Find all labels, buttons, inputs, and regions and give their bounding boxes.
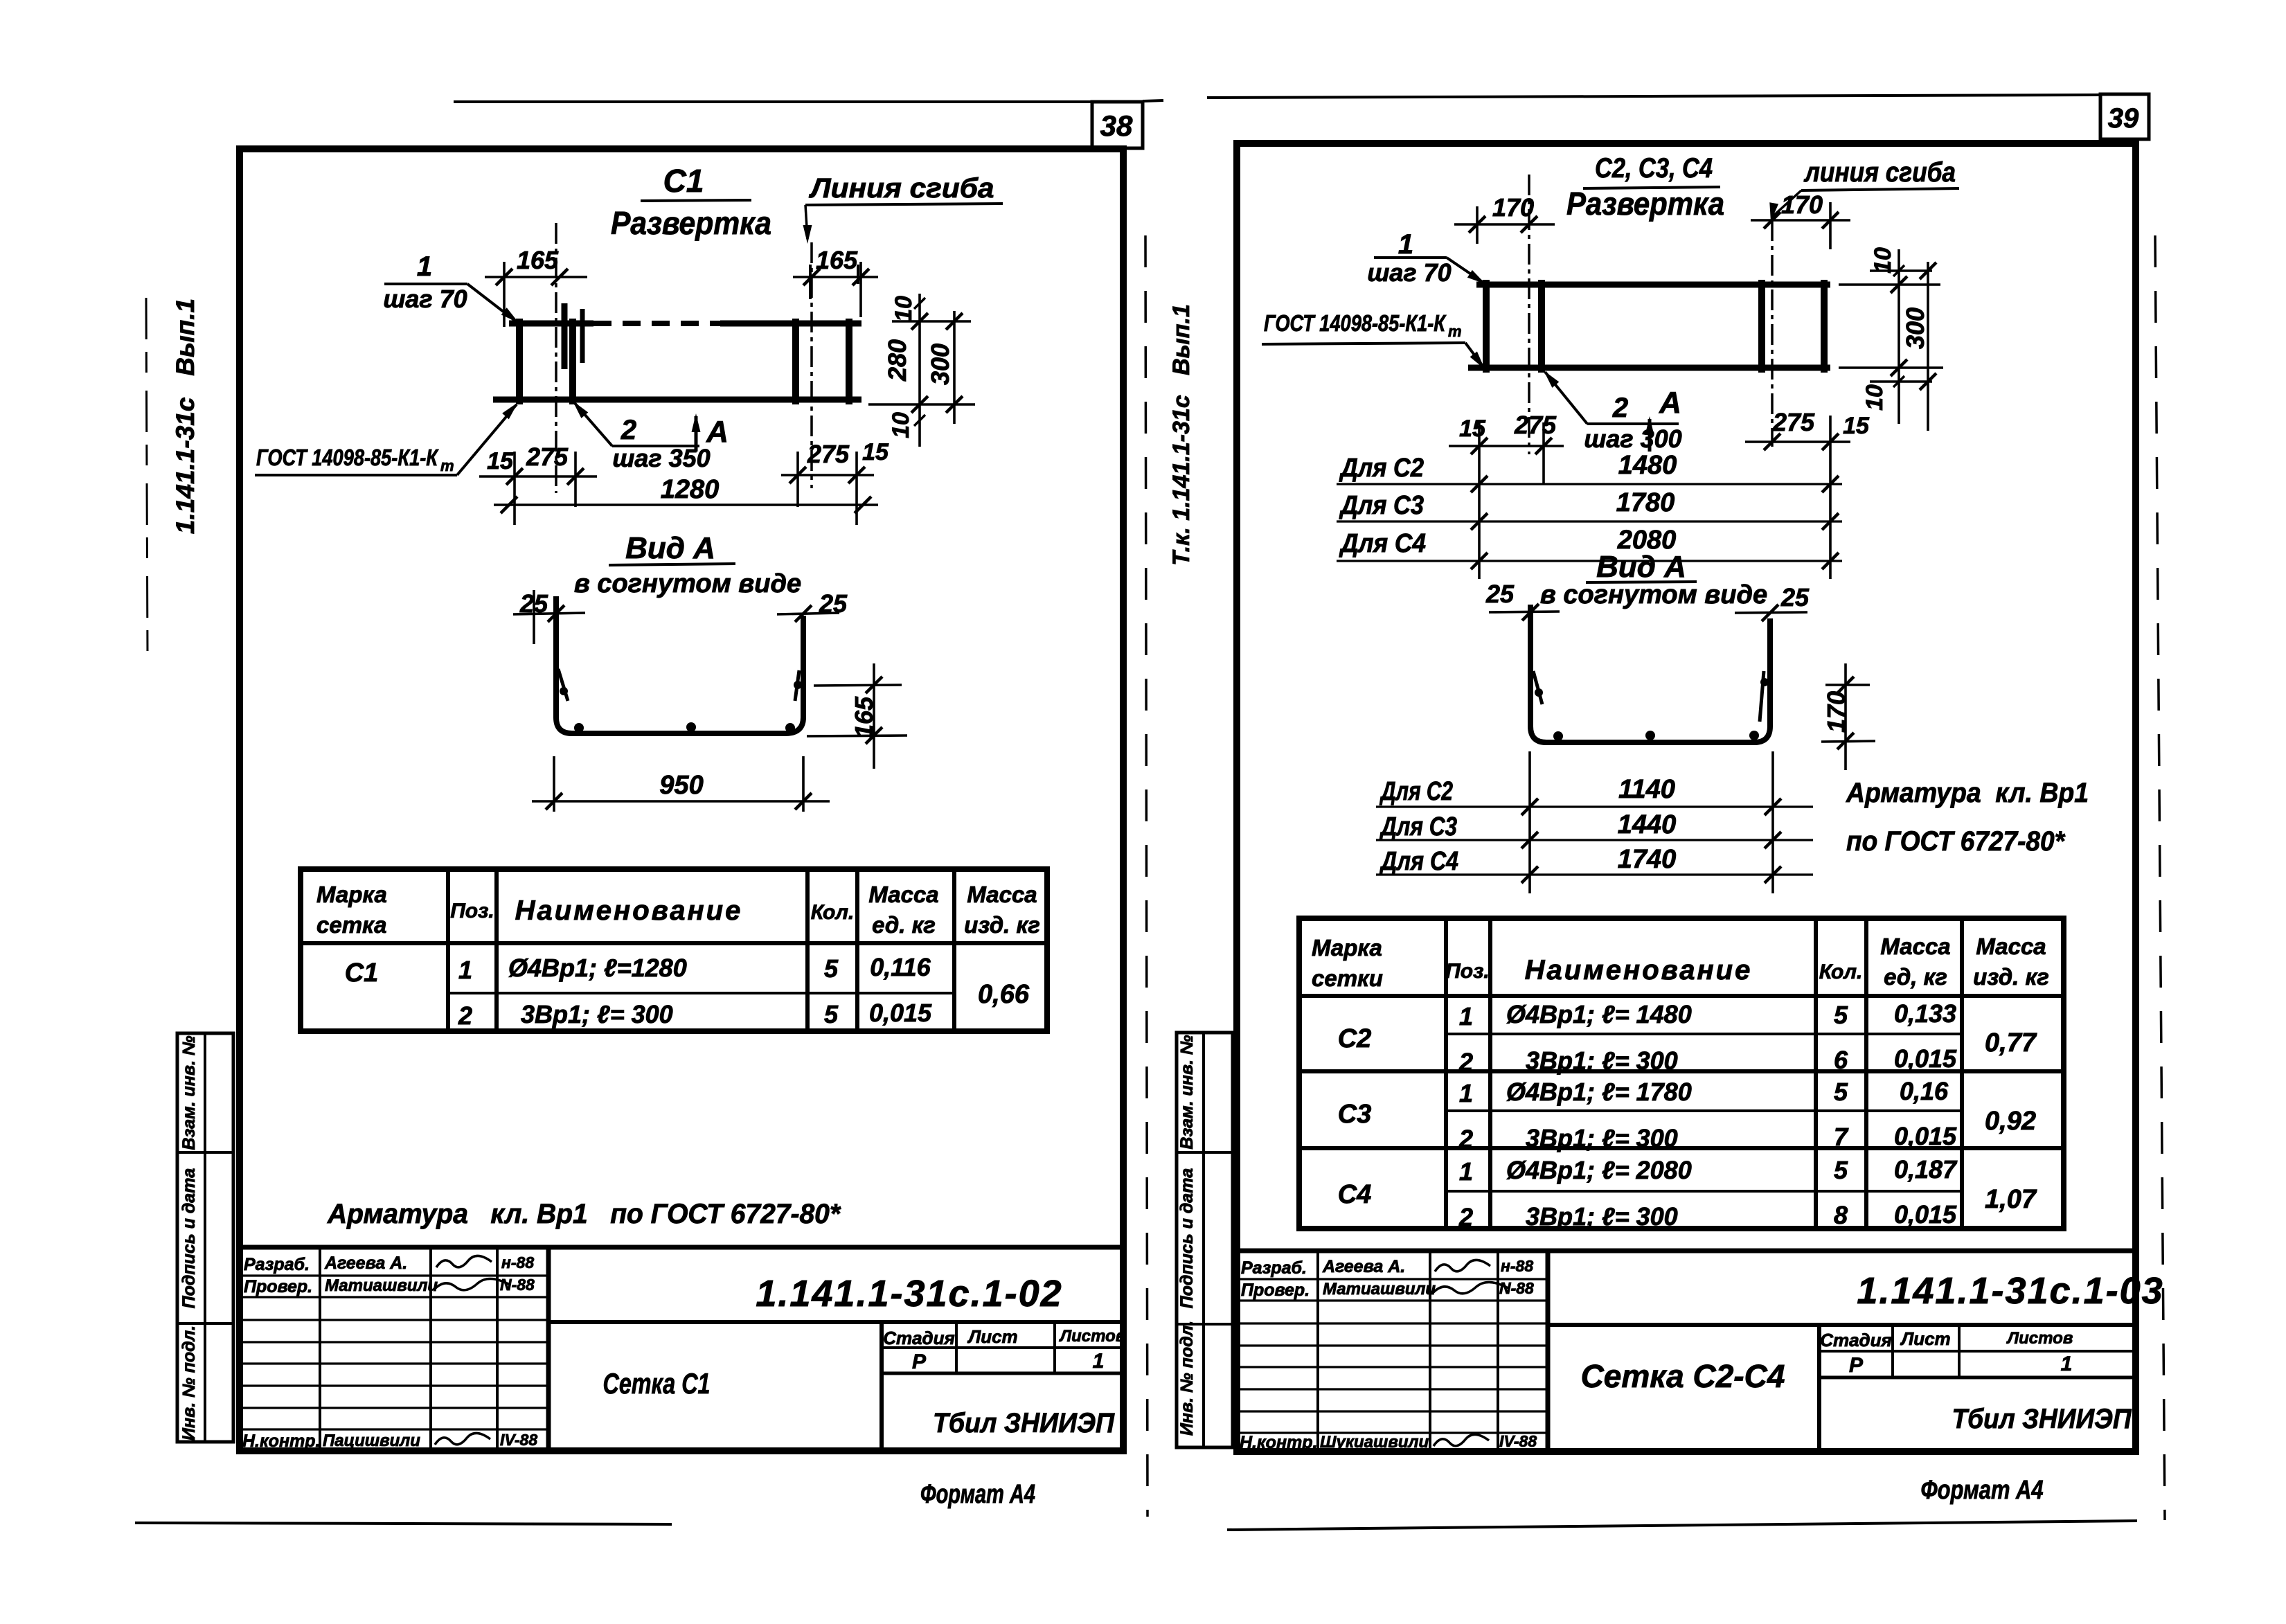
svg-text:Шукиашвили: Шукиашвили (1320, 1433, 1429, 1452)
title block sheet2 (1237, 1249, 2136, 1253)
svg-text:изд. кг: изд. кг (1973, 964, 2049, 990)
dim 165 bent height (814, 685, 902, 686)
svg-text:2: 2 (1612, 393, 1628, 423)
svg-text:Агеева А.: Агеева А. (1322, 1257, 1405, 1276)
dim 165 right (859, 262, 862, 317)
svg-text:Р: Р (1849, 1354, 1864, 1377)
svg-text:Наименование: Наименование (1525, 955, 1753, 985)
svg-text:1,07: 1,07 (1985, 1185, 2037, 1214)
svg-text:Листов: Листов (2006, 1329, 2073, 1348)
svg-text:2: 2 (1458, 1125, 1473, 1153)
specification table sheet1 (301, 869, 1047, 1031)
svg-text:Формат А4: Формат А4 (1921, 1476, 2044, 1505)
svg-text:10: 10 (1870, 247, 1896, 274)
wire hook left sheet2 (1533, 671, 1542, 704)
svg-text:Вид А: Вид А (1596, 550, 1686, 584)
svg-text:15: 15 (1843, 413, 1870, 439)
section arrow A sheet2 (1648, 419, 1652, 452)
svg-text:Стадия: Стадия (1820, 1330, 1892, 1350)
svg-text:шаг 300: шаг 300 (1584, 425, 1681, 453)
svg-text:сетка: сетка (316, 912, 387, 938)
svg-text:0,187: 0,187 (1894, 1155, 1958, 1184)
svg-text:т: т (1448, 323, 1462, 340)
svg-text:Листов: Листов (1059, 1327, 1126, 1346)
svg-text:2: 2 (1458, 1048, 1473, 1076)
svg-text:Наименование: Наименование (515, 895, 743, 926)
svg-text:3Вр1; ℓ= 300: 3Вр1; ℓ= 300 (1526, 1046, 1678, 1075)
mesh C1 top longitudinal wire (509, 321, 593, 327)
svg-text:Поз.: Поз. (1445, 960, 1490, 983)
svg-text:С3: С3 (1338, 1100, 1372, 1129)
mesh C1 right transverse rod 2 (846, 319, 852, 404)
svg-text:1.141.1-31с Вып.1: 1.141.1-31с Вып.1 (171, 298, 199, 534)
mesh C1 top wire right part (720, 321, 861, 327)
page number box 39 (2100, 94, 2149, 139)
svg-text:С1: С1 (345, 958, 379, 988)
svg-text:н-88: н-88 (501, 1253, 534, 1271)
dim 15 275 left sheet2 (1478, 422, 1481, 579)
svg-text:Для С4: Для С4 (1379, 847, 1458, 876)
transverse wire dots sheet2 (1553, 731, 1563, 741)
svg-text:3Вр1; ℓ= 300: 3Вр1; ℓ= 300 (1526, 1202, 1678, 1231)
dim 170 bent height sheet2 (1825, 684, 1870, 686)
svg-text:25: 25 (1485, 580, 1515, 608)
mesh right transverse rod 1 (1758, 280, 1765, 373)
svg-text:Тбил ЗНИИЭП: Тбил ЗНИИЭП (1952, 1404, 2132, 1434)
svg-text:275: 275 (1772, 408, 1815, 436)
svg-text:8: 8 (1834, 1201, 1848, 1229)
svg-text:3Вр1; ℓ= 300: 3Вр1; ℓ= 300 (1526, 1124, 1678, 1152)
svg-text:15: 15 (487, 448, 514, 474)
svg-text:Подпись и дата: Подпись и дата (1177, 1168, 1197, 1309)
svg-text:Линия сгиба: Линия сгиба (808, 173, 994, 204)
scan left margin dashed line (146, 298, 148, 654)
svg-text:Ø4Вр1; ℓ= 1480: Ø4Вр1; ℓ= 1480 (1506, 1000, 1692, 1028)
svg-text:1: 1 (417, 251, 432, 282)
svg-text:в согнутом виде: в согнутом виде (1540, 580, 1767, 609)
svg-text:1: 1 (1459, 1157, 1473, 1186)
mesh C1 second transverse rod (569, 319, 576, 404)
stamp sheet1 (882, 1346, 1123, 1349)
svg-text:1: 1 (1093, 1350, 1105, 1373)
extra tick marks near left rods (shag 70) (562, 303, 568, 369)
svg-text:1740: 1740 (1618, 845, 1677, 874)
svg-text:сетки: сетки (1312, 965, 1383, 991)
mesh C1 top wire dashed middle (593, 321, 720, 326)
svg-text:275: 275 (807, 440, 850, 468)
svg-text:Н.контр.: Н.контр. (1240, 1433, 1318, 1452)
scan bottom edge line (right) (1227, 1521, 2137, 1530)
svg-text:170: 170 (1492, 193, 1534, 222)
svg-text:6: 6 (1834, 1046, 1848, 1074)
svg-text:1280: 1280 (661, 475, 720, 504)
svg-text:IV-88: IV-88 (1499, 1432, 1537, 1450)
svg-text:5: 5 (824, 1000, 839, 1028)
section arrow A (695, 416, 698, 452)
svg-text:Лист: Лист (1900, 1328, 1950, 1349)
svg-text:25: 25 (1780, 583, 1810, 612)
dim 170 right sheet2 (1829, 202, 1832, 249)
svg-text:1480: 1480 (1618, 451, 1677, 480)
svg-text:Вид А: Вид А (625, 531, 715, 565)
fold line right (dash-dot) (810, 242, 813, 488)
svg-text:1140: 1140 (1618, 775, 1675, 804)
wire hook left (558, 669, 568, 701)
svg-text:1: 1 (1459, 1079, 1473, 1107)
dim 165 left (503, 262, 506, 327)
svg-text:С1: С1 (663, 163, 704, 199)
svg-text:Н.контр.: Н.контр. (242, 1431, 321, 1451)
svg-text:Разраб.: Разраб. (244, 1255, 310, 1274)
fold line left (dash-dot) (555, 223, 557, 493)
mesh C2-C4 top longitudinal wire (1476, 282, 1830, 288)
mesh C1 bottom longitudinal wire (493, 397, 861, 403)
scan top edge line (right) (1207, 95, 2100, 98)
svg-text:Для С4: Для С4 (1339, 529, 1426, 558)
svg-text:Тбил ЗНИИЭП: Тбил ЗНИИЭП (933, 1408, 1115, 1438)
svg-text:Матиашвили: Матиашвили (1323, 1280, 1436, 1299)
svg-text:0,015: 0,015 (1894, 1122, 1957, 1150)
svg-text:0,116: 0,116 (870, 953, 931, 981)
svg-text:1: 1 (2061, 1353, 2073, 1375)
svg-text:5: 5 (1834, 1078, 1848, 1106)
mesh C1 left transverse rod (516, 319, 523, 404)
svg-text:С2, С3, С4: С2, С3, С4 (1595, 153, 1713, 184)
left strip boxes sheet1 (177, 1033, 233, 1442)
svg-text:Взам. инв. №: Взам. инв. № (179, 1035, 199, 1150)
svg-text:Стадия: Стадия (883, 1328, 955, 1348)
svg-text:Подпись и дата: Подпись и дата (179, 1168, 199, 1309)
wire hook right (795, 670, 799, 701)
svg-text:0,16: 0,16 (1900, 1077, 1949, 1105)
svg-text:Взам. инв. №: Взам. инв. № (1177, 1035, 1197, 1149)
svg-text:0,77: 0,77 (1985, 1028, 2037, 1058)
svg-text:С2: С2 (1338, 1024, 1372, 1053)
svg-text:Сетка С2-С4: Сетка С2-С4 (1581, 1358, 1785, 1394)
svg-text:линия сгиба: линия сгиба (1803, 157, 1956, 188)
dim 950 (553, 756, 555, 812)
right dims 10 300 10 sheet2 (1870, 269, 1932, 272)
short vertical ticks above mesh (809, 265, 812, 299)
svg-text:39: 39 (2108, 103, 2139, 134)
svg-text:2: 2 (458, 1001, 472, 1030)
svg-text:Р: Р (912, 1350, 927, 1373)
svg-text:300: 300 (1901, 307, 1929, 349)
svg-text:0,66: 0,66 (978, 980, 1030, 1009)
svg-text:по ГОСТ 6727-80*: по ГОСТ 6727-80* (1846, 826, 2066, 857)
svg-text:0,133: 0,133 (1894, 999, 1956, 1028)
svg-text:Т.к. 1.141.1-31с Вып.1: Т.к. 1.141.1-31с Вып.1 (1168, 304, 1195, 566)
svg-text:Агеева А.: Агеева А. (324, 1253, 407, 1273)
sheet 1 frame (240, 149, 1123, 1451)
svg-text:2: 2 (620, 415, 636, 445)
signature grid sheet2 (1316, 1251, 1319, 1452)
svg-text:1.141.1-31с.1-02: 1.141.1-31с.1-02 (756, 1273, 1062, 1314)
svg-text:15: 15 (1459, 416, 1486, 442)
svg-text:Масса: Масса (1880, 934, 1950, 959)
svg-text:950: 950 (659, 771, 703, 800)
dim 275 15 right (796, 452, 799, 507)
svg-text:Масса: Масса (868, 882, 938, 907)
svg-text:5: 5 (824, 954, 839, 983)
svg-text:в согнутом виде: в согнутом виде (574, 569, 801, 598)
bent mesh U-shape (556, 596, 803, 733)
svg-text:А: А (1659, 386, 1681, 420)
svg-text:Формат А4: Формат А4 (920, 1480, 1035, 1509)
svg-text:Пацишвили: Пацишвили (323, 1431, 420, 1450)
svg-text:н-88: н-88 (1501, 1257, 1533, 1275)
fold line left (dash-dot) sheet2 (1528, 175, 1530, 454)
mesh right transverse rod 2 (1821, 280, 1828, 373)
stamp sheet2 (1819, 1350, 2136, 1353)
svg-text:изд. кг: изд. кг (964, 912, 1040, 938)
fold mark dashed line right of sheet 1 (1145, 235, 1148, 1517)
svg-text:10: 10 (1861, 384, 1888, 411)
svg-text:1440: 1440 (1618, 810, 1677, 839)
svg-text:1: 1 (458, 956, 472, 984)
wire hook right sheet2 (1760, 671, 1764, 722)
sheet 2 frame (1237, 143, 2136, 1452)
dim 15 275 left (513, 452, 516, 525)
svg-text:Масса: Масса (1976, 934, 2046, 959)
svg-text:0,015: 0,015 (1894, 1200, 1957, 1229)
svg-text:Ø4Вр1; ℓ=1280: Ø4Вр1; ℓ=1280 (508, 954, 687, 982)
mesh left transverse rod 2 (1538, 280, 1545, 373)
svg-text:0,015: 0,015 (1894, 1044, 1957, 1073)
svg-text:Арматура кл. Вр1 по ГОСТ 6: Арматура кл. Вр1 по ГОСТ 6727-80* (327, 1199, 841, 1229)
scan top edge line (left) (454, 100, 1091, 103)
svg-text:Развертка: Развертка (611, 205, 771, 241)
left strip boxes sheet2 (1177, 1033, 1233, 1447)
page number box 38 (1092, 102, 1143, 148)
svg-text:Развертка: Развертка (1566, 186, 1724, 222)
svg-text:5: 5 (1834, 1001, 1848, 1029)
svg-text:10: 10 (888, 412, 914, 438)
svg-text:IV-88: IV-88 (500, 1431, 537, 1449)
svg-text:7: 7 (1834, 1123, 1849, 1151)
svg-text:Ø4Вр1; ℓ= 2080: Ø4Вр1; ℓ= 2080 (1506, 1156, 1692, 1184)
svg-text:300: 300 (926, 343, 954, 385)
svg-text:Провер.: Провер. (1241, 1281, 1310, 1300)
svg-text:5: 5 (1834, 1156, 1848, 1184)
bent mesh U-shape sheet2 (1530, 605, 1770, 742)
svg-text:0,92: 0,92 (1985, 1107, 2036, 1136)
svg-text:Инв. № подл.: Инв. № подл. (1177, 1321, 1197, 1436)
svg-text:165: 165 (850, 696, 878, 738)
mesh C2-C4 bottom longitudinal wire (1468, 365, 1830, 371)
svg-text:N-88: N-88 (500, 1276, 535, 1294)
svg-text:Инв. № подл.: Инв. № подл. (179, 1326, 199, 1440)
svg-text:Для С3: Для С3 (1379, 812, 1457, 841)
svg-text:3Вр1; ℓ= 300: 3Вр1; ℓ= 300 (521, 1000, 673, 1028)
svg-text:ГОСТ 14098-85-К1-К: ГОСТ 14098-85-К1-К (1264, 310, 1447, 336)
svg-text:Провер.: Провер. (244, 1277, 312, 1296)
svg-text:Марка: Марка (1312, 935, 1382, 961)
svg-text:шаг 70: шаг 70 (1367, 258, 1451, 287)
svg-text:1780: 1780 (1616, 488, 1675, 517)
dim 275 15 right sheet2 (1829, 416, 1832, 579)
svg-text:Для С2: Для С2 (1379, 777, 1453, 806)
svg-text:Марка: Марка (316, 882, 387, 907)
scan bottom edge line (left) (135, 1523, 672, 1524)
svg-text:Разраб.: Разраб. (1241, 1258, 1307, 1278)
svg-text:Сетка С1: Сетка С1 (603, 1367, 711, 1400)
specification table sheet2 (1299, 918, 2064, 1229)
svg-text:Кол.: Кол. (811, 901, 855, 924)
svg-text:0,015: 0,015 (869, 999, 932, 1027)
mesh left transverse rod 1 (1483, 280, 1490, 373)
svg-text:275: 275 (1514, 411, 1557, 439)
signature grid sheet1 (319, 1247, 321, 1451)
fold mark dashed line right of sheet 2 (2155, 235, 2165, 1520)
fold line right (dash-dot) sheet2 (1771, 220, 1774, 447)
svg-text:Арматура кл. Вр1: Арматура кл. Вр1 (1846, 778, 2089, 808)
right dims 10 280 300 10 (892, 320, 971, 323)
svg-text:Лист: Лист (967, 1326, 1017, 1347)
svg-text:165: 165 (816, 246, 858, 274)
dim 1280 (494, 503, 878, 506)
svg-text:Кол.: Кол. (1819, 961, 1863, 983)
dim 170 left sheet2 (1476, 206, 1479, 244)
svg-text:165: 165 (517, 246, 559, 274)
svg-text:275: 275 (526, 443, 569, 471)
svg-text:т: т (440, 457, 454, 474)
svg-text:Для С3: Для С3 (1339, 491, 1424, 520)
mesh C1 right transverse rod 1 (792, 319, 799, 404)
svg-text:шаг 70: шаг 70 (383, 285, 467, 313)
svg-text:15: 15 (862, 439, 889, 465)
svg-text:Ø4Вр1; ℓ= 1780: Ø4Вр1; ℓ= 1780 (1506, 1078, 1692, 1106)
svg-text:ед. кг: ед. кг (872, 912, 936, 938)
transverse wire dots (574, 723, 584, 733)
svg-text:ГОСТ 14098-85-К1-К: ГОСТ 14098-85-К1-К (256, 445, 439, 470)
svg-text:1.141.1-31с.1-03: 1.141.1-31с.1-03 (1857, 1270, 2163, 1312)
svg-text:Поз.: Поз. (450, 900, 494, 922)
svg-text:Матиашвили: Матиашвили (325, 1276, 438, 1295)
title block sheet1 (240, 1245, 1123, 1250)
leader to fold line (805, 205, 807, 239)
svg-text:2: 2 (1458, 1203, 1473, 1231)
svg-text:Для С2: Для С2 (1339, 454, 1424, 483)
svg-text:ед, кг: ед, кг (1884, 964, 1947, 990)
svg-text:С4: С4 (1338, 1180, 1372, 1209)
svg-text:170: 170 (1781, 190, 1823, 219)
bent ext verticals sheet2 (1528, 751, 1531, 893)
svg-text:1: 1 (1398, 229, 1413, 260)
svg-text:Масса: Масса (967, 882, 1037, 907)
svg-text:1: 1 (1459, 1002, 1473, 1030)
svg-text:10: 10 (891, 296, 917, 322)
svg-text:N-88: N-88 (1499, 1279, 1534, 1297)
svg-text:280: 280 (883, 339, 911, 382)
svg-text:А: А (706, 415, 729, 449)
svg-text:38: 38 (1100, 109, 1133, 142)
svg-text:170: 170 (1822, 691, 1850, 733)
